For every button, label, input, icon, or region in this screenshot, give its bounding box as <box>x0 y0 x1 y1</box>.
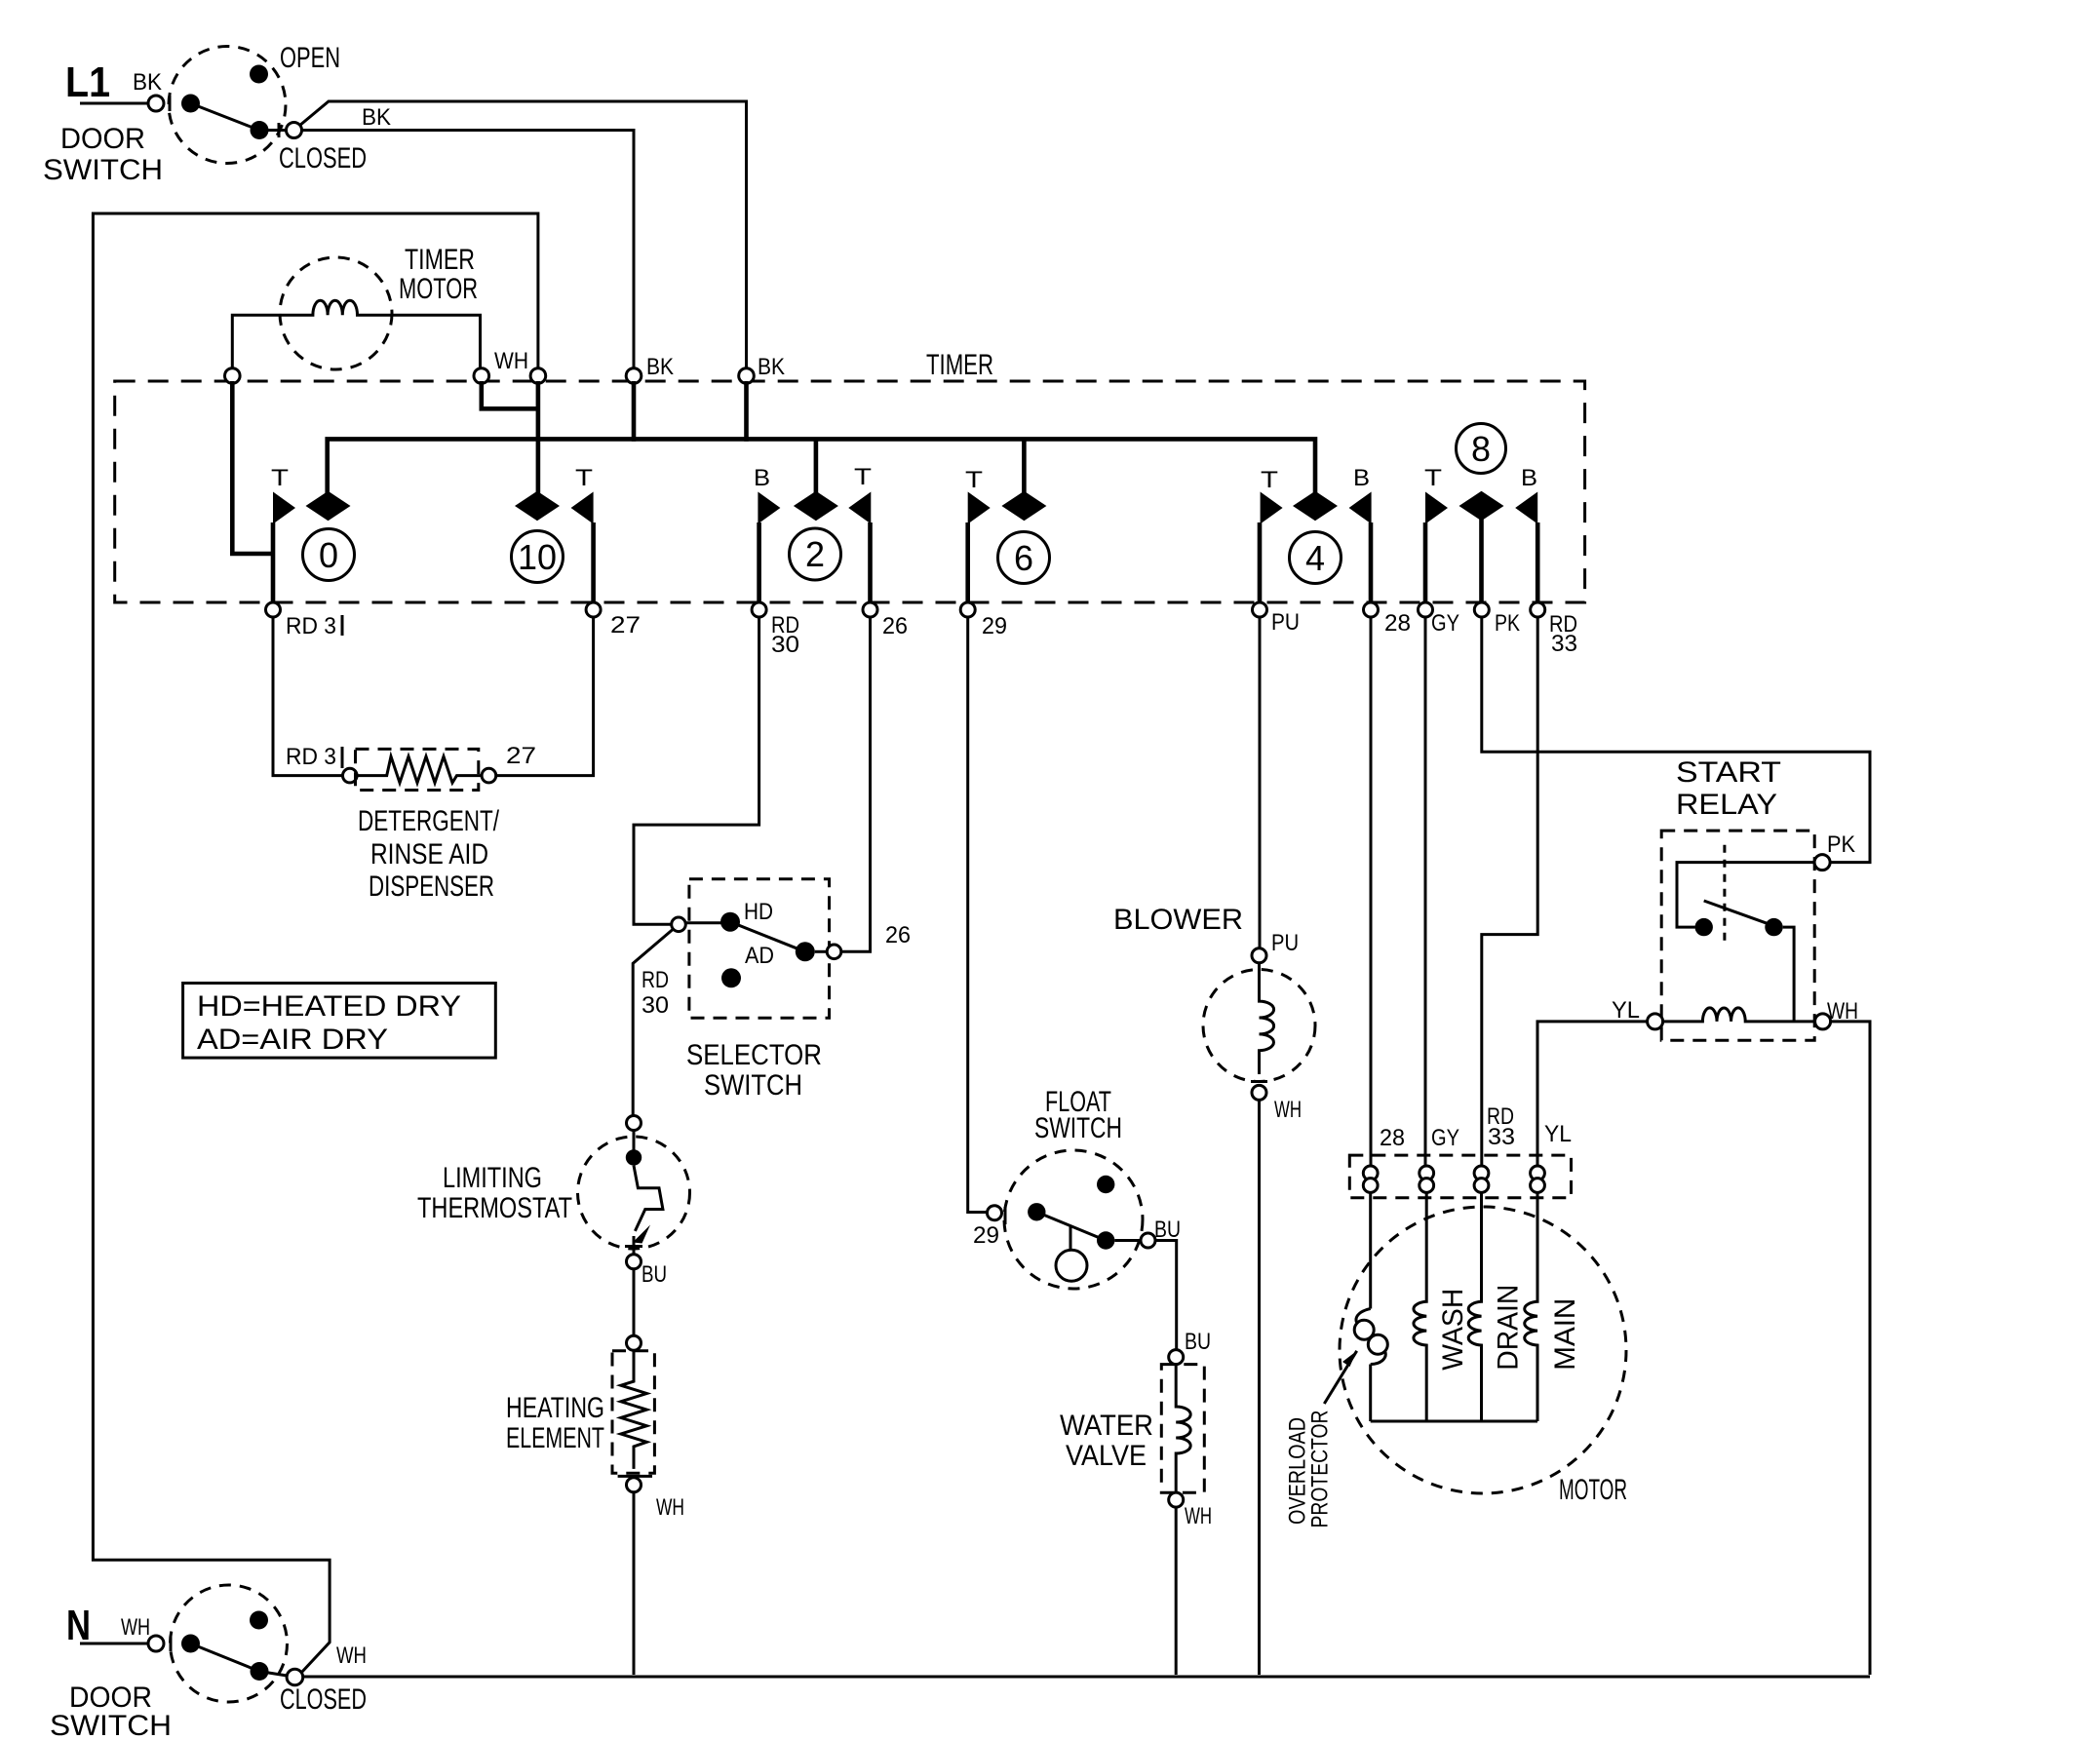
svg-text:WH: WH <box>494 348 528 374</box>
timer terminal (neutral) <box>530 368 546 384</box>
svg-text:PK: PK <box>1827 831 1855 858</box>
svg-text:B: B <box>754 465 770 491</box>
wire closed contact to terminal <box>259 123 287 137</box>
timer terminal 29 <box>960 602 975 617</box>
contact 4: cam diamond <box>1293 491 1338 521</box>
svg-text:RD: RD <box>642 967 669 993</box>
svg-text:RINSE AID: RINSE AID <box>370 838 488 870</box>
wire selector to terminal 26 <box>841 617 871 951</box>
svg-text:MAIN: MAIN <box>1549 1298 1581 1371</box>
neutral rail <box>303 1676 1870 1679</box>
cam number 2 <box>790 528 841 580</box>
wire right contact down to coil <box>1783 927 1794 1022</box>
water valve coil <box>1176 1365 1190 1493</box>
motor case dashed <box>1340 1207 1626 1493</box>
DS2 common contact <box>181 1635 200 1653</box>
svg-text:27: 27 <box>506 743 536 769</box>
timer heavy stubs BK <box>634 381 747 442</box>
selector arm <box>730 922 805 952</box>
svg-text:MOTOR: MOTOR <box>399 273 478 305</box>
wire valve to neutral rail <box>1175 1507 1178 1675</box>
wire PK to start relay <box>1482 617 1870 863</box>
svg-text:WH: WH <box>121 1614 150 1641</box>
svg-text:RD 3: RD 3 <box>286 613 336 639</box>
DS2 terminal CLOSED <box>287 1669 303 1685</box>
wire thermostat to heater <box>633 1269 636 1335</box>
door switch DS2 bottom: dashed case <box>171 1585 288 1702</box>
svg-text:33: 33 <box>1551 631 1577 657</box>
svg-text:CLOSED: CLOSED <box>279 142 367 174</box>
cam number 8 <box>1457 424 1506 474</box>
wire heater to neutral rail <box>633 1492 636 1675</box>
svg-text:ELEMENT: ELEMENT <box>506 1422 604 1454</box>
selector HD contact <box>720 912 740 932</box>
timer terminal RD30 <box>752 602 766 617</box>
relay WH terminal <box>1815 1014 1831 1029</box>
svg-text:33: 33 <box>1488 1124 1515 1150</box>
motor connector block <box>1349 1155 1571 1198</box>
selector right terminal <box>827 945 841 959</box>
wire 29 to float switch <box>968 617 988 1213</box>
timer terminal PU <box>1253 602 1267 617</box>
svg-text:WH: WH <box>656 1494 684 1521</box>
dispenser terminal right <box>482 768 496 783</box>
timer heavy risers diamonds 2 and 6 <box>816 439 1025 493</box>
thermostat bottom terminal <box>627 1255 642 1269</box>
contact 6: cam diamond <box>1001 491 1046 521</box>
svg-text:BU: BU <box>642 1261 667 1288</box>
tick case crossing <box>170 1636 173 1651</box>
svg-text:WASH: WASH <box>1437 1289 1469 1371</box>
svg-text:OPEN: OPEN <box>280 42 340 74</box>
svg-text:GY: GY <box>1431 610 1459 637</box>
timer terminal 26 <box>863 602 877 617</box>
svg-text:WATER: WATER <box>1060 1410 1153 1442</box>
contact 2: triangle T <box>848 492 871 524</box>
relay right contact <box>1765 918 1782 936</box>
wire 28 to motor connector <box>1370 617 1373 1166</box>
door switch DS1 terminal L1 <box>148 96 164 111</box>
svg-text:0: 0 <box>319 535 338 575</box>
svg-text:DRAIN: DRAIN <box>1492 1285 1524 1371</box>
timer bus heavy <box>328 439 1315 493</box>
svg-text:START: START <box>1676 756 1781 789</box>
timer case dashed box <box>115 381 1585 602</box>
float switch arm <box>1036 1212 1106 1240</box>
timer heavy branch motor-to-contact0 <box>232 381 273 554</box>
selector switch case <box>689 879 830 1018</box>
float switch upper contact <box>1097 1176 1114 1193</box>
svg-text:AD: AD <box>745 943 774 969</box>
svg-text:DETERGENT/: DETERGENT/ <box>358 805 499 837</box>
svg-text:6: 6 <box>1014 538 1033 578</box>
svg-text:RD 3: RD 3 <box>286 744 336 770</box>
svg-text:8: 8 <box>1471 429 1491 469</box>
wire overload to motor common <box>1369 1365 1372 1422</box>
heater bottom tick <box>618 1475 652 1478</box>
DS1 OPEN contact <box>250 65 268 84</box>
cam number 4 <box>1290 532 1342 584</box>
svg-text:HD=HEATED DRY: HD=HEATED DRY <box>197 990 461 1023</box>
contact 0: cam diamond <box>306 491 351 521</box>
overload protector contact 2 <box>1368 1334 1387 1354</box>
wire 28 into motor <box>1369 1192 1372 1308</box>
svg-text:PU: PU <box>1271 930 1299 956</box>
svg-text:SWITCH: SWITCH <box>704 1069 802 1102</box>
wire N lead <box>80 1643 148 1645</box>
svg-text:T: T <box>575 465 593 491</box>
svg-text:T: T <box>271 465 289 491</box>
svg-text:28: 28 <box>1380 1125 1405 1151</box>
overload leader line <box>1324 1351 1356 1404</box>
wire selector common to HD <box>685 921 722 924</box>
wire relay WH to neutral rail <box>1831 1022 1870 1675</box>
wire 27 to dispenser <box>496 617 594 776</box>
timer terminal GY <box>1419 602 1433 617</box>
cam number 10 <box>512 531 564 583</box>
cam number 6 <box>998 532 1050 584</box>
svg-text:30: 30 <box>642 992 669 1019</box>
water valve top terminal <box>1169 1350 1184 1365</box>
contact 6: triangle T <box>968 492 991 524</box>
blower coil <box>1260 963 1274 1074</box>
wire blower to neutral rail <box>1258 1100 1261 1675</box>
svg-text:VALVE: VALVE <box>1066 1440 1147 1472</box>
legend box <box>183 984 496 1059</box>
svg-text:WH: WH <box>336 1643 367 1669</box>
overload protector hook top <box>1356 1309 1371 1323</box>
DS2 OPEN contact <box>250 1611 268 1630</box>
svg-text:2: 2 <box>805 534 825 574</box>
blower bottom terminal <box>1252 1085 1266 1100</box>
thermostat wire from terminal <box>633 1131 636 1151</box>
thermostat wire bottom + tick <box>625 1236 642 1255</box>
svg-text:SWITCH: SWITCH <box>50 1710 172 1740</box>
water valve bottom terminal <box>1169 1492 1184 1507</box>
tick case crossing <box>169 96 172 111</box>
selector common terminal <box>672 917 686 932</box>
start relay case <box>1661 831 1814 1040</box>
motor WASH winding <box>1414 1192 1426 1421</box>
timer terminal PK <box>1474 602 1489 617</box>
DS1 terminal CLOSED <box>287 123 302 138</box>
svg-text:BLOWER: BLOWER <box>1113 904 1243 936</box>
blower case <box>1203 970 1315 1082</box>
blower bottom tick <box>1251 1080 1267 1083</box>
timer motor coil and leads <box>232 300 480 368</box>
wire neutral left loop <box>93 213 538 1673</box>
svg-text:29: 29 <box>982 613 1007 639</box>
svg-text:LIMITING: LIMITING <box>443 1162 542 1194</box>
svg-text:WH: WH <box>1274 1097 1302 1123</box>
overload protector contact 1 <box>1354 1320 1374 1339</box>
timer terminal 27 <box>586 602 601 617</box>
wire selector common to thermostat <box>633 930 673 1116</box>
selector arm end contact <box>796 942 815 961</box>
svg-text:DOOR: DOOR <box>60 123 145 155</box>
svg-text:SELECTOR: SELECTOR <box>686 1039 822 1071</box>
thermostat arrow <box>633 1225 650 1244</box>
dispenser terminal left <box>343 768 358 783</box>
wire RD30 to selector <box>634 617 759 924</box>
svg-text:HD: HD <box>744 899 773 925</box>
svg-text:L1: L1 <box>65 58 110 106</box>
wire arm to right terminal <box>815 950 827 953</box>
svg-text:SWITCH: SWITCH <box>43 154 163 186</box>
contact 8: triangle T <box>1425 492 1448 524</box>
svg-text:PK: PK <box>1495 610 1520 637</box>
svg-text:YL: YL <box>1612 997 1640 1024</box>
contact 8: cam diamond <box>1459 491 1504 521</box>
wire RD31 to dispenser <box>273 617 343 776</box>
limiting thermostat top terminal <box>627 1116 642 1131</box>
svg-text:BU: BU <box>1154 1217 1181 1243</box>
overload protector hook bottom <box>1371 1351 1386 1365</box>
svg-text:30: 30 <box>771 632 799 658</box>
heater bottom terminal <box>627 1478 642 1492</box>
DS1 CLOSED contact <box>251 121 269 139</box>
heater top terminal <box>627 1335 642 1350</box>
svg-text:26: 26 <box>885 922 911 948</box>
connector pin pair RD33 <box>1474 1166 1489 1180</box>
svg-text:T: T <box>1261 467 1278 493</box>
svg-text:B: B <box>1353 465 1370 491</box>
float pendulum <box>1069 1226 1072 1251</box>
float ball <box>1056 1250 1087 1281</box>
wire closed to terminal <box>259 1672 287 1677</box>
svg-text:PROTECTOR: PROTECTOR <box>1307 1411 1334 1528</box>
wire lower contact to BU terminal <box>1114 1239 1141 1242</box>
water valve case <box>1161 1365 1204 1493</box>
thermostat contact dot <box>626 1149 642 1165</box>
motor MAIN winding <box>1525 1192 1537 1421</box>
DS2 terminal N <box>148 1636 164 1651</box>
timer terminal RD31 <box>266 602 281 617</box>
wire YL relay to motor connector <box>1537 1022 1648 1166</box>
svg-text:B: B <box>1521 465 1537 491</box>
limiting thermostat case <box>578 1137 690 1249</box>
contact 4: triangle T <box>1261 492 1283 524</box>
svg-text:BK: BK <box>362 104 391 131</box>
svg-text:4: 4 <box>1305 538 1325 578</box>
blower top terminal <box>1252 948 1266 963</box>
motor DRAIN winding <box>1468 1192 1481 1421</box>
connector pin pair YL <box>1531 1166 1545 1180</box>
svg-text:GY: GY <box>1431 1125 1459 1151</box>
timer heavy stub WH jog <box>482 381 538 493</box>
thermostat bimetal element <box>634 1166 663 1231</box>
contact 4: triangle B <box>1349 492 1372 524</box>
svg-text:T: T <box>854 464 872 490</box>
timer motor TM dashed case <box>280 257 392 369</box>
wire PU to blower <box>1259 617 1262 948</box>
svg-text:YL: YL <box>1544 1121 1572 1147</box>
heating element case <box>612 1351 654 1474</box>
svg-text:TIMER: TIMER <box>926 349 993 381</box>
timer terminal 28 <box>1364 602 1379 617</box>
cam number 0 <box>303 529 355 581</box>
svg-text:27: 27 <box>610 612 641 638</box>
svg-text:PU: PU <box>1271 609 1300 636</box>
svg-text:DISPENSER: DISPENSER <box>369 870 494 903</box>
contact 2: triangle B <box>758 492 780 524</box>
relay armature <box>1704 901 1774 926</box>
contact 8: triangle B <box>1515 492 1537 524</box>
DS1 switch arm <box>191 103 260 131</box>
svg-text:MOTOR: MOTOR <box>1559 1474 1627 1506</box>
float switch case <box>1004 1150 1143 1289</box>
timer terminal BK right <box>739 368 755 384</box>
contact 10: cam diamond <box>515 491 560 521</box>
start relay PK terminal <box>1814 855 1830 870</box>
timer terminal RD33 <box>1531 602 1545 617</box>
DS2 CLOSED contact <box>251 1662 269 1681</box>
relay YL terminal <box>1648 1014 1663 1029</box>
detergent dispenser case <box>356 749 479 790</box>
wire RD33 to motor connector <box>1482 617 1537 1166</box>
float switch left terminal <box>988 1206 1002 1220</box>
svg-text:T: T <box>1424 465 1442 491</box>
float switch lower contact <box>1097 1231 1114 1249</box>
svg-text:SWITCH: SWITCH <box>1034 1112 1122 1144</box>
wire BK run to timer terminal BK right <box>299 101 747 368</box>
timer terminal WH <box>474 368 489 384</box>
DS2 switch arm <box>191 1643 260 1672</box>
svg-text:BK: BK <box>133 69 162 96</box>
svg-text:TIMER: TIMER <box>405 244 475 276</box>
svg-text:28: 28 <box>1384 610 1411 637</box>
svg-text:10: 10 <box>518 537 557 577</box>
float switch common contact <box>1028 1203 1045 1220</box>
relay coil <box>1663 1008 1815 1022</box>
svg-text:WH: WH <box>1185 1503 1212 1529</box>
wire L1 lead <box>80 102 148 105</box>
timer heavy drops to terminals <box>273 519 1537 602</box>
wire float switch to water valve <box>1155 1241 1177 1350</box>
svg-text:26: 26 <box>882 613 908 639</box>
svg-text:T: T <box>965 467 983 493</box>
contact 0: triangle T <box>273 492 295 524</box>
selector AD contact <box>721 968 741 987</box>
svg-text:RELAY: RELAY <box>1676 789 1777 821</box>
connector pin pair GY <box>1419 1166 1434 1180</box>
timer terminal BK left <box>626 368 642 384</box>
float switch BU terminal <box>1141 1233 1155 1248</box>
connector pin pair 28 <box>1363 1166 1378 1180</box>
relay actuator dashed link <box>1723 845 1726 947</box>
wire GY to motor connector <box>1424 617 1427 1166</box>
relay internal wire to left contact <box>1677 863 1814 928</box>
svg-text:HEATING: HEATING <box>506 1392 604 1424</box>
svg-text:BU: BU <box>1185 1329 1211 1355</box>
svg-text:THERMOSTAT: THERMOSTAT <box>417 1192 572 1224</box>
svg-text:BK: BK <box>646 354 674 380</box>
timer terminal (motor left) <box>225 368 241 384</box>
DS1 common contact <box>181 95 200 113</box>
dispenser heater resistor <box>357 756 482 783</box>
svg-text:AD=AIR DRY: AD=AIR DRY <box>197 1024 388 1056</box>
heating element resistor <box>621 1350 647 1469</box>
contact 10: triangle T <box>571 492 594 524</box>
motor common bus <box>1371 1420 1537 1423</box>
door switch DS1 top: dashed case <box>169 47 286 164</box>
wire BK run to timer terminal BK left <box>302 131 635 369</box>
relay left contact <box>1695 918 1713 936</box>
svg-text:29: 29 <box>973 1222 999 1249</box>
contact 2: cam diamond <box>794 491 838 521</box>
svg-text:BK: BK <box>758 354 785 380</box>
svg-text:CLOSED: CLOSED <box>280 1683 367 1716</box>
